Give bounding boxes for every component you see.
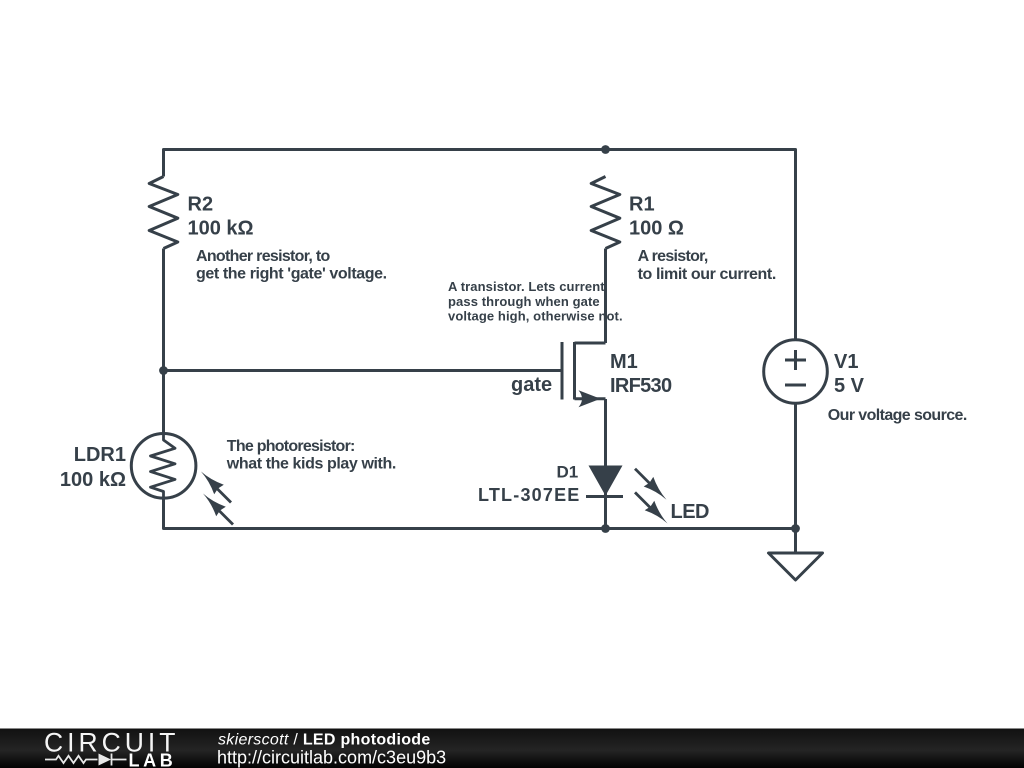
V1 minus sign — [785, 384, 806, 387]
voltage source V1 circle — [764, 340, 828, 404]
svg-text:The photoresistor:: The photoresistor: — [227, 438, 355, 455]
svg-text:100 kΩ: 100 kΩ — [60, 469, 126, 491]
svg-text:what the kids play with.: what the kids play with. — [226, 456, 396, 473]
svg-text:get the right 'gate' voltage.: get the right 'gate' voltage. — [196, 266, 387, 283]
LED light arrow 2 head — [645, 501, 668, 524]
resistor R2 — [149, 177, 178, 249]
ground symbol — [769, 553, 823, 580]
LDR light arrow 2 shaft — [213, 505, 233, 525]
transistor M1 source lead — [575, 397, 606, 400]
LED light arrow 1 head — [644, 477, 667, 500]
node junction gate tap — [159, 366, 168, 375]
svg-text:R2: R2 — [188, 194, 214, 216]
wire right branch below V1 — [794, 403, 797, 553]
svg-text:to limit our current.: to limit our current. — [638, 266, 776, 283]
svg-text:100 kΩ: 100 kΩ — [188, 218, 254, 240]
svg-text:R1: R1 — [629, 194, 655, 216]
svg-text:LED: LED — [671, 501, 710, 523]
wire top rail with corner drops — [164, 150, 796, 340]
svg-text:pass through when gate: pass through when gate — [448, 294, 600, 309]
svg-text:A transistor. Lets current: A transistor. Lets current — [448, 279, 605, 294]
photoresistor LDR1 zigzag — [151, 434, 176, 498]
LDR light arrow 1 head — [201, 472, 224, 495]
transistor M1 gate bar — [561, 342, 564, 400]
LDR light arrow 1 shaft — [211, 483, 231, 503]
diode D1 triangle — [589, 466, 623, 496]
diode D1 cathode bar — [586, 495, 623, 498]
node junction top — [601, 145, 610, 154]
wire left branch between R2 and LDR — [162, 249, 165, 435]
svg-text:IRF530: IRF530 — [610, 375, 672, 397]
svg-text:LDR1: LDR1 — [74, 444, 126, 466]
svg-text:Our voltage source.: Our voltage source. — [828, 407, 967, 424]
photoresistor LDR1 circle — [131, 434, 196, 499]
svg-text:100 Ω: 100 Ω — [629, 218, 684, 240]
node junction bottom right — [791, 524, 800, 533]
LDR light arrow 2 head — [203, 494, 226, 517]
svg-text:LAB: LAB — [129, 750, 177, 768]
svg-text:LTL-307EE: LTL-307EE — [478, 485, 581, 505]
svg-text:http://circuitlab.com/c3eu9b3: http://circuitlab.com/c3eu9b3 — [217, 747, 446, 767]
transistor M1 channel bar — [573, 342, 576, 400]
node junction bottom LED — [601, 524, 610, 533]
logo squiggle wire — [45, 754, 127, 766]
LED light arrow 1 shaft — [635, 469, 654, 488]
resistor R1 — [591, 177, 620, 249]
wire source mosfet to LED and ground rail — [604, 399, 607, 529]
svg-text:D1: D1 — [557, 462, 579, 481]
transistor M1 drain lead — [575, 342, 606, 345]
wire gate lead — [164, 369, 563, 372]
svg-text:M1: M1 — [610, 351, 638, 373]
wire bottom rail — [164, 498, 796, 529]
V1 plus sign — [785, 350, 806, 370]
svg-text:A resistor,: A resistor, — [638, 248, 708, 265]
logo diode — [99, 754, 112, 766]
svg-text:gate: gate — [511, 374, 552, 396]
svg-text:Another resistor, to: Another resistor, to — [196, 248, 331, 265]
svg-text:V1: V1 — [834, 351, 858, 373]
wire drain R1 to mosfet — [604, 249, 607, 344]
transistor M1 source arrow — [579, 390, 601, 407]
svg-text:5 V: 5 V — [834, 375, 865, 397]
LED light arrow 2 shaft — [635, 492, 655, 512]
svg-text:skierscott / LED photodiode: skierscott / LED photodiode — [218, 732, 431, 749]
svg-text:voltage high, otherwise not.: voltage high, otherwise not. — [448, 309, 623, 324]
